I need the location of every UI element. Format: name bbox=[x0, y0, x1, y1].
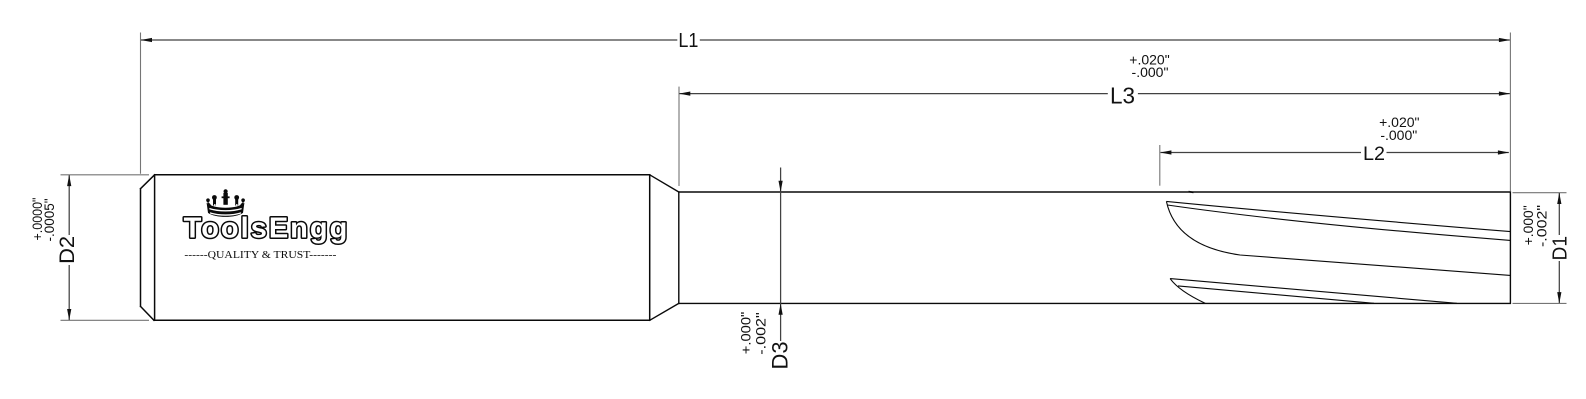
svg-text:-.0005": -.0005" bbox=[41, 198, 57, 241]
L2 arrowheads bbox=[1160, 150, 1171, 154]
svg-text:-.002": -.002" bbox=[1534, 205, 1550, 247]
band bbox=[207, 203, 245, 217]
L3 dimension line bbox=[679, 93, 1509, 95]
svg-text:------QUALITY & TRUST-------: ------QUALITY & TRUST------- bbox=[184, 249, 336, 261]
L3 arrowheads bbox=[679, 92, 690, 96]
svg-text:+.000": +.000" bbox=[738, 312, 754, 355]
D2 dimension line bbox=[68, 175, 70, 320]
D3 arrowheads bbox=[779, 181, 783, 192]
L1 dimension line bbox=[141, 39, 1510, 41]
upper flute bbox=[1166, 201, 1510, 275]
svg-text:-.000": -.000" bbox=[1132, 64, 1169, 80]
L2 extension line left bbox=[1159, 145, 1161, 186]
L1/L3 extension line right bbox=[1509, 33, 1511, 192]
center post bbox=[224, 189, 228, 193]
D1 arrowheads bbox=[1557, 193, 1561, 204]
svg-text:D1: D1 bbox=[1548, 236, 1571, 261]
svg-text:L1: L1 bbox=[678, 30, 698, 52]
L3 extension line left bbox=[678, 87, 680, 186]
D1 dimension line bbox=[1558, 193, 1560, 303]
svg-text:-.000": -.000" bbox=[1380, 127, 1417, 143]
svg-text:ToolsEngg: ToolsEngg bbox=[184, 213, 350, 245]
logo crown bbox=[206, 189, 245, 217]
L1 arrowheads bbox=[141, 38, 152, 42]
flute tick on top edge bbox=[1189, 191, 1194, 194]
L2 dimension line bbox=[1161, 152, 1509, 154]
D1 extension lines bbox=[1513, 192, 1567, 194]
D3 dimension line bbox=[780, 168, 782, 342]
D2 arrowheads bbox=[67, 175, 71, 186]
svg-text:D3: D3 bbox=[768, 342, 793, 370]
svg-text:-.002": -.002" bbox=[753, 312, 769, 355]
D2 extension lines bbox=[61, 174, 150, 176]
outer horns bbox=[206, 198, 210, 202]
reamer cylinder (neck + flute section) bbox=[679, 192, 1511, 303]
svg-text:L3: L3 bbox=[1110, 82, 1135, 108]
side orbs bbox=[212, 195, 217, 200]
shank body outline bbox=[141, 175, 650, 320]
svg-text:L2: L2 bbox=[1363, 143, 1385, 165]
taper cone body-to-neck bbox=[650, 175, 679, 320]
svg-text:D2: D2 bbox=[55, 236, 79, 264]
L1 extension line left bbox=[140, 33, 142, 174]
lower flute bbox=[1170, 279, 1457, 304]
